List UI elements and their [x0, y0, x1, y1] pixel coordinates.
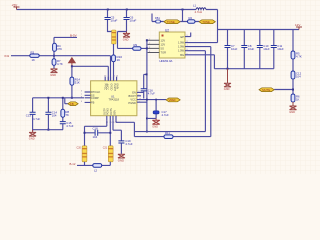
- svg-text:GND: GND: [289, 110, 295, 114]
- resistor R7 pulldown: [53, 56, 55, 69]
- svg-text:1.5W: 1.5W: [178, 45, 185, 49]
- svg-text:4.7uH: 4.7uH: [195, 10, 202, 14]
- wire C12 to port row: [274, 79, 293, 94]
- svg-text:TGR: TGR: [161, 51, 167, 55]
- power arrow VREF: [69, 58, 76, 67]
- svg-text:4.7K: 4.7K: [296, 55, 302, 59]
- wire output left branch: [85, 121, 107, 146]
- wire between R5 and C12: [292, 59, 294, 71]
- svg-text:10uF: 10uF: [111, 19, 118, 23]
- junction top rail at C5: [107, 9, 109, 11]
- svg-text:104: 104: [296, 75, 301, 79]
- svg-text:4.7uF: 4.7uF: [162, 113, 169, 117]
- ground caps rail: [224, 69, 231, 87]
- svg-text:10uF: 10uF: [263, 47, 270, 51]
- svg-text:B-5V: B-5V: [70, 33, 77, 37]
- wire CE1 bottom lead: [113, 44, 115, 55]
- capacitor C8 10uF (x244.3): [243, 30, 245, 46]
- power flag +5V top-left: [14, 7, 20, 10]
- svg-text:AVCC: AVCC: [106, 84, 109, 91]
- svg-text:L2: L2: [94, 169, 98, 173]
- svg-text:BOOT: BOOT: [129, 94, 137, 98]
- svg-text:FB: FB: [70, 102, 74, 106]
- svg-text:EN: EN: [132, 90, 136, 94]
- junction C18 left: [84, 132, 86, 134]
- svg-text:4.7uF: 4.7uF: [66, 124, 73, 128]
- svg-text:1K: 1K: [32, 58, 36, 62]
- svg-text:12V: 12V: [295, 23, 300, 27]
- svg-text:4.7uF: 4.7uF: [33, 117, 40, 121]
- wire BSN branch: [113, 121, 121, 141]
- U1 left pin stubs: [85, 92, 91, 102]
- junction R14 to rail: [71, 97, 73, 99]
- wire caps bottom rail: [228, 68, 274, 70]
- svg-text:EP: EP: [181, 35, 185, 39]
- svg-text:GAIN: GAIN: [116, 83, 119, 89]
- resistor R2 in tone row: [188, 20, 196, 24]
- svg-text:TPA3118: TPA3118: [109, 98, 120, 102]
- svg-text:104: 104: [52, 114, 57, 118]
- svg-text:C20: C20: [77, 147, 82, 150]
- ground comp network: [29, 130, 36, 136]
- svg-text:4.7uF: 4.7uF: [148, 92, 155, 96]
- U1 top pin labels (rotated): [104, 83, 119, 91]
- resistor R8 in comp network: [62, 98, 64, 122]
- svg-text:1.5W: 1.5W: [178, 41, 185, 45]
- IC U2 body: [159, 32, 185, 58]
- svg-text:PLIMIT: PLIMIT: [113, 83, 116, 91]
- port COMP tap: [65, 98, 68, 104]
- svg-text:10uF: 10uF: [248, 47, 255, 51]
- svg-text:+5V: +5V: [12, 3, 19, 7]
- svg-text:VCC: VCC: [130, 97, 136, 101]
- junction C18 right: [109, 132, 111, 134]
- U1 right pin stubs: [137, 92, 166, 102]
- resistor R11 on loop: [164, 135, 173, 139]
- svg-text:B-12: B-12: [70, 162, 76, 166]
- svg-text:BG: BG: [180, 53, 184, 57]
- junction top rail at tone tap: [182, 9, 184, 11]
- svg-text:GND: GND: [29, 136, 35, 140]
- capacitor C12 vertical right: [291, 71, 295, 79]
- capacitor C19: [118, 141, 124, 143]
- capacitor C10 10uF (x273.8): [273, 30, 275, 46]
- inductor L1 4.7uH: [196, 8, 206, 10]
- power flag +12V top-right: [296, 27, 302, 30]
- ground under R7: [51, 68, 58, 72]
- resistor R4 pullup: [54, 37, 77, 55]
- wire main +5V rail: [17, 9, 218, 11]
- electrolytic cap CE3: [108, 146, 113, 162]
- capacitor C18 bridge: [85, 132, 111, 134]
- svg-text:HDMI2.0A: HDMI2.0A: [160, 59, 173, 63]
- diode D1: [147, 100, 156, 119]
- capacitor C9 10uF (x259.8): [259, 30, 261, 46]
- capacitor C13: [32, 98, 34, 112]
- capacitor C7 10uF (x227.5): [227, 30, 229, 46]
- U1 pin numbers: [81, 75, 142, 124]
- U1 bottom pin labels (rotated): [103, 108, 116, 115]
- svg-text:10uF: 10uF: [277, 47, 284, 51]
- resistor R10 vertical below CE1: [112, 55, 116, 62]
- junction boot column: [146, 73, 148, 75]
- svg-text:10uF: 10uF: [231, 47, 238, 51]
- U1 top pin stubs: [105, 77, 116, 81]
- U2 right pin stubs and wires: [185, 30, 228, 137]
- wire tone tap drop: [152, 10, 199, 22]
- resistor R6 vertical right lower: [291, 94, 295, 102]
- svg-text:R2: R2: [189, 16, 193, 20]
- ground under C19: [118, 154, 125, 158]
- svg-text:1.5W: 1.5W: [178, 49, 185, 53]
- svg-text:12V: 12V: [161, 43, 166, 47]
- U2 pin numbers: [149, 35, 189, 55]
- svg-text:IN1: IN1: [5, 54, 10, 58]
- port OUT right of U1: [166, 98, 180, 102]
- wire right column from rail: [292, 30, 294, 52]
- svg-text:C18: C18: [93, 126, 99, 130]
- inductor L2 on bottom rail: [93, 164, 102, 168]
- svg-text:GND: GND: [224, 87, 230, 91]
- junction arrow branch: [71, 65, 73, 67]
- svg-text:GND: GND: [50, 73, 56, 77]
- svg-text:BSN: BSN: [114, 110, 117, 115]
- svg-text:TONE: TONE: [167, 20, 175, 24]
- svg-text:GVDD: GVDD: [110, 84, 113, 91]
- junction boot column nodes: [146, 39, 148, 41]
- capacitor C16 plates: [141, 89, 147, 91]
- wire bottom rail: [77, 164, 110, 166]
- svg-text:R11: R11: [165, 131, 170, 135]
- resistor R3 series input: [30, 54, 39, 57]
- svg-text:FB1: FB1: [155, 16, 160, 20]
- svg-text:C13: C13: [26, 114, 32, 118]
- svg-text:R9: R9: [134, 43, 138, 47]
- svg-text:4.7uF: 4.7uF: [125, 142, 132, 146]
- svg-text:104: 104: [93, 135, 98, 139]
- svg-text:51K: 51K: [75, 81, 80, 85]
- ground under D1: [152, 118, 159, 124]
- junction input node: [53, 55, 55, 57]
- port TONE2: [199, 20, 215, 24]
- wire CE bottoms to rail: [85, 162, 111, 166]
- port SPK: [259, 88, 274, 92]
- svg-text:COMP: COMP: [91, 96, 99, 100]
- electrolytic cap CE1: [112, 30, 116, 44]
- wire boot column: [141, 40, 147, 131]
- svg-text:L1: L1: [193, 3, 197, 7]
- svg-text:1K: 1K: [296, 98, 300, 102]
- svg-text:R3: R3: [31, 50, 35, 54]
- resistor R5 vertical right: [291, 51, 295, 59]
- svg-text:VREF: VREF: [169, 98, 177, 102]
- capacitor C14: [47, 98, 49, 112]
- U1 bottom pin stubs: [107, 116, 116, 121]
- capacitor C5 10uF: [107, 10, 109, 18]
- IC U1 body: [91, 81, 137, 116]
- ground under C6: [123, 32, 130, 38]
- U2 left pin stubs: [148, 40, 160, 52]
- svg-text:U2: U2: [165, 29, 169, 33]
- wire R10 to IC1 top: [113, 62, 115, 81]
- svg-text:GND: GND: [118, 159, 124, 163]
- junction caps rail: [227, 68, 229, 70]
- svg-text:MUTE: MUTE: [262, 88, 270, 92]
- junction comp network nodes: [47, 97, 49, 99]
- background grid: [0, 0, 320, 174]
- junction right column: [292, 89, 294, 91]
- U2 right pin labels: [178, 35, 185, 57]
- svg-text:4.7K: 4.7K: [57, 62, 63, 66]
- junction top rail at C6: [126, 9, 128, 11]
- svg-text:PGND: PGND: [128, 101, 136, 105]
- capacitor C15 below R8: [60, 122, 66, 124]
- wire comp network bottom rail: [33, 129, 63, 131]
- svg-text:47K: 47K: [57, 47, 62, 51]
- svg-text:12V: 12V: [161, 39, 166, 43]
- wire arrow branch to IC top: [72, 66, 108, 81]
- ground under R6: [290, 102, 297, 110]
- wire loop H1: [134, 131, 205, 133]
- wire input: [11, 56, 111, 81]
- wire loop H2 with R11: [116, 121, 211, 137]
- svg-text:C21: C21: [103, 147, 108, 150]
- capacitor C6 10uF: [126, 10, 128, 18]
- svg-text:GND: GND: [123, 37, 129, 41]
- resistor R9 on boot wire: [133, 47, 141, 50]
- wire output mid branch: [109, 121, 111, 146]
- svg-text:TONE: TONE: [202, 20, 210, 24]
- wire comp network top rail: [33, 97, 84, 99]
- U1 left pin labels: [91, 90, 100, 104]
- svg-text:10uF: 10uF: [130, 19, 137, 23]
- wire right top rail: [218, 29, 300, 31]
- ferrite bead FB1: [156, 20, 161, 23]
- svg-text:RT/CLK: RT/CLK: [91, 90, 100, 94]
- electrolytic cap CE2: [82, 146, 87, 162]
- U2 pin-1 mark: [162, 35, 164, 37]
- svg-text:1K: 1K: [117, 58, 121, 62]
- U1 right pin labels: [128, 90, 136, 105]
- svg-text:GND: GND: [152, 125, 158, 129]
- wire rail drop right: [217, 10, 219, 30]
- svg-text:5G: 5G: [161, 47, 164, 51]
- port TONE1: [164, 20, 180, 24]
- U2 left pin labels: [161, 39, 167, 55]
- resistor R14: [71, 66, 73, 98]
- svg-text:7K: 7K: [66, 113, 70, 117]
- svg-text:FB: FB: [91, 100, 95, 104]
